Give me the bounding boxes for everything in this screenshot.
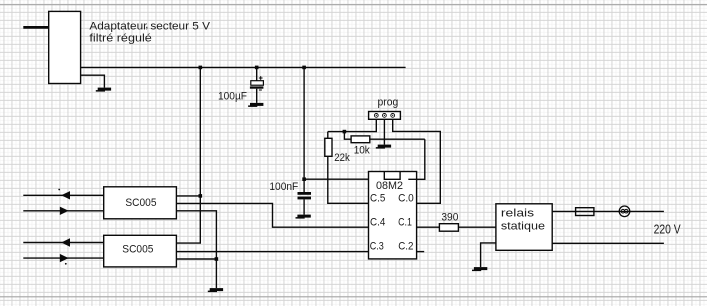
- capacitor C2 100nF top plate: [298, 192, 312, 195]
- power supply PS1 box: [49, 11, 81, 83]
- svg-text:390: 390: [441, 212, 458, 224]
- relay U4 box: [496, 204, 552, 251]
- svg-text:100µF: 100µF: [218, 90, 247, 102]
- ground 100nF: [296, 215, 311, 219]
- wire SC005#1 supply pin: [176, 195, 200, 197]
- wire relay output neutral: [552, 242, 664, 244]
- capacitor C1 100uF negative plate: [250, 86, 264, 88]
- fuse F1 body: [576, 208, 594, 216]
- capacitor C1 plus sign: [259, 76, 263, 80]
- photocoupler SC005 U2 box: [104, 187, 177, 219]
- wire relay ground branch: [481, 243, 496, 267]
- wire U2 ground pin to ground rail: [176, 211, 216, 288]
- wire IC C.1 to resistor 390: [417, 226, 440, 228]
- wire U2 cathode input: [23, 210, 103, 212]
- resistor R1 22k body: [325, 138, 332, 156]
- node dot sensor ground rail: [215, 257, 219, 261]
- wire 100uF to ground: [256, 89, 258, 103]
- svg-text:C.4: C.4: [370, 217, 385, 229]
- wire relay output live: [552, 210, 664, 212]
- ground 100uF: [248, 103, 263, 107]
- node dot IC V+ /100nF: [302, 177, 306, 181]
- svg-text:,: ,: [145, 19, 148, 31]
- svg-text:SC005: SC005: [122, 243, 153, 255]
- svg-text:Adaptateur secteur 5 V: Adaptateur secteur 5 V: [89, 20, 210, 32]
- capacitor C1 100uF positive plate: [251, 81, 264, 86]
- svg-text:statique: statique: [501, 221, 545, 233]
- mains plug prong: [23, 26, 50, 29]
- node dot 5V sensor1: [199, 194, 203, 198]
- page boundary line bottom: [0, 296, 707, 298]
- wire 5V branch to IC: [304, 67, 368, 179]
- svg-text:220 V: 220 V: [654, 223, 681, 237]
- photocoupler SC005 U3 box: [104, 235, 177, 267]
- ground adapter: [96, 88, 111, 92]
- diode arrow U3 right-pointing: [60, 254, 69, 262]
- svg-text:C.1: C.1: [398, 217, 412, 229]
- svg-text:22k: 22k: [334, 152, 350, 164]
- diode arrow U3 left-pointing: [61, 238, 70, 246]
- wire U3 anode input: [23, 242, 103, 244]
- svg-text:C.0: C.0: [398, 193, 414, 205]
- svg-text:C.3: C.3: [370, 240, 384, 252]
- resistor R1 22k bottom lead to IC C.5: [328, 156, 369, 203]
- svg-text:08M2: 08M2: [376, 180, 403, 192]
- lamp LA1 filament loops: [621, 209, 625, 213]
- ground relay: [472, 267, 487, 271]
- resistor R2 10k right lead: [370, 138, 425, 140]
- wire U3 cathode input: [23, 257, 103, 259]
- capacitor C2 100nF bottom plate: [298, 197, 312, 200]
- wire prog serial-out to IC C.0: [393, 119, 441, 203]
- wire 390 to relay: [458, 226, 496, 228]
- wire 5V rail: [81, 66, 406, 68]
- wire 100uF branch: [256, 67, 258, 80]
- node dot rail/IC branch: [302, 66, 306, 70]
- resistor R1 22k top lead: [327, 132, 329, 139]
- resistor R2 10k left lead: [344, 132, 351, 140]
- wire U2 anode input: [23, 194, 103, 196]
- capacitor C1 minus sign: [259, 89, 262, 91]
- svg-text:relais: relais: [501, 208, 535, 220]
- wire U3 output to IC C.3: [176, 251, 368, 253]
- svg-text:100nF: 100nF: [269, 181, 298, 193]
- node dot serial-in junction: [343, 130, 347, 134]
- svg-text:filtré régulé: filtré régulé: [89, 33, 151, 45]
- node dot rail/100uF: [255, 66, 259, 70]
- svg-text:10k: 10k: [354, 145, 370, 157]
- ground sensors: [208, 288, 223, 292]
- connector J1 pin3 circle: [391, 114, 395, 118]
- connector J1 prog box: [369, 112, 401, 120]
- wire prog serial-in net: [328, 119, 377, 131]
- node dot rail/sensors: [199, 66, 203, 70]
- speck near U2 diode: [58, 189, 60, 191]
- svg-text:prog: prog: [378, 96, 399, 108]
- wire 5V drop to sensors: [176, 67, 200, 243]
- connector J1 pin1 circle: [374, 114, 378, 118]
- svg-text:SC005: SC005: [125, 197, 156, 209]
- wire U3 ground pin: [176, 258, 216, 260]
- wire 100nF to ground: [303, 199, 305, 214]
- connector J1 pin2 circle: [383, 114, 387, 118]
- speck near U3 diode: [65, 263, 67, 265]
- wire 100nF branch: [303, 179, 305, 192]
- diode arrow U2 right-pointing: [60, 207, 69, 215]
- IC U1 notch: [384, 172, 400, 180]
- wire serial-in stub into IC: [408, 139, 425, 179]
- ground prog: [376, 145, 391, 149]
- IC U1 08M2 box: [369, 172, 417, 259]
- wire IC C.2 stub: [417, 251, 425, 253]
- svg-text:C.5: C.5: [370, 193, 385, 205]
- diode arrow U2 left-pointing: [61, 191, 70, 199]
- page boundary line top: [0, 4, 707, 6]
- wire prog ground pin: [383, 119, 385, 144]
- lamp LA1 circle: [619, 206, 630, 217]
- resistor R2 10k body: [351, 136, 370, 143]
- svg-text:C.2: C.2: [398, 240, 413, 252]
- resistor R3 390 body: [439, 224, 458, 232]
- wire U2 output to IC C.4: [176, 203, 368, 227]
- wire adapter 0V pin: [81, 75, 105, 87]
